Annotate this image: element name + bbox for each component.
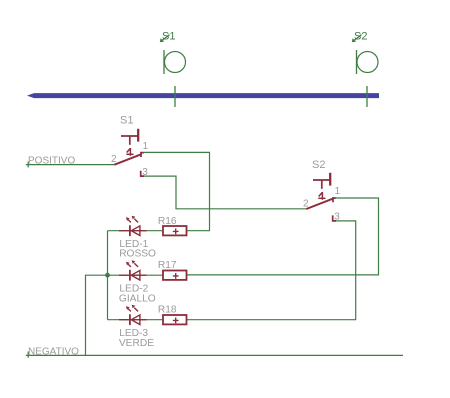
svg-text:VERDE: VERDE: [119, 338, 154, 349]
svg-text:S1: S1: [120, 114, 133, 126]
resistor R18: [163, 315, 187, 324]
switch S2 body: [306, 173, 336, 221]
wire S1 pin 3 to S2 pin 2: [144, 176, 306, 209]
LED row 2: wire LED-2 to R17: [108, 274, 164, 276]
resistor R16: [163, 226, 187, 235]
LED LED-1: [119, 216, 147, 236]
LED row 1: wire LED-1 to R16: [108, 230, 164, 232]
svg-text:2: 2: [111, 154, 117, 165]
LED LED-2: [119, 260, 147, 280]
svg-text:1: 1: [143, 141, 149, 152]
svg-text:R16: R16: [158, 216, 177, 227]
junction dot: [105, 273, 110, 278]
wire POSITIVO to S1 pin 2: [26, 164, 115, 166]
connector S2 arrow mark: [352, 35, 362, 43]
connector S1 circle: [165, 52, 186, 73]
wire S2 pin 3 to R18: [187, 221, 356, 320]
LED LED-3: [119, 305, 147, 325]
switch S1 body: [114, 129, 144, 176]
LED row 3: wire LED-3 to R18: [108, 319, 164, 321]
wire S1 pin 1 to R16: [144, 152, 210, 230]
connector S2 pin line: [356, 50, 358, 74]
bus bar: [27, 93, 379, 98]
svg-text:S2: S2: [354, 30, 367, 42]
svg-text:1: 1: [335, 186, 341, 197]
svg-text:R17: R17: [158, 260, 177, 271]
connector S1 arrow mark: [160, 35, 170, 43]
svg-text:NEGATIVO: NEGATIVO: [28, 346, 79, 357]
resistor R17: [163, 271, 187, 280]
wire junction to negative rail: [86, 275, 108, 355]
net POSITIVO label tick: [27, 161, 29, 167]
svg-text:S1: S1: [162, 30, 175, 42]
svg-text:R18: R18: [158, 305, 177, 316]
svg-text:ROSSO: ROSSO: [119, 248, 156, 259]
wire LED cathode rail: [107, 231, 109, 320]
net NEGATIVO label tick: [27, 352, 29, 358]
svg-text:2: 2: [303, 199, 309, 210]
connector S1 pin line: [163, 50, 165, 74]
connector S2 circle: [357, 52, 378, 73]
svg-text:S2: S2: [312, 159, 325, 171]
svg-text:GIALLO: GIALLO: [119, 294, 156, 305]
wire S2 pin 1 to R17: [187, 198, 379, 275]
wire NEGATIVO rail: [26, 354, 403, 356]
connector S1 bus tap tick: [174, 86, 176, 107]
connector S2 bus tap tick: [366, 86, 368, 107]
